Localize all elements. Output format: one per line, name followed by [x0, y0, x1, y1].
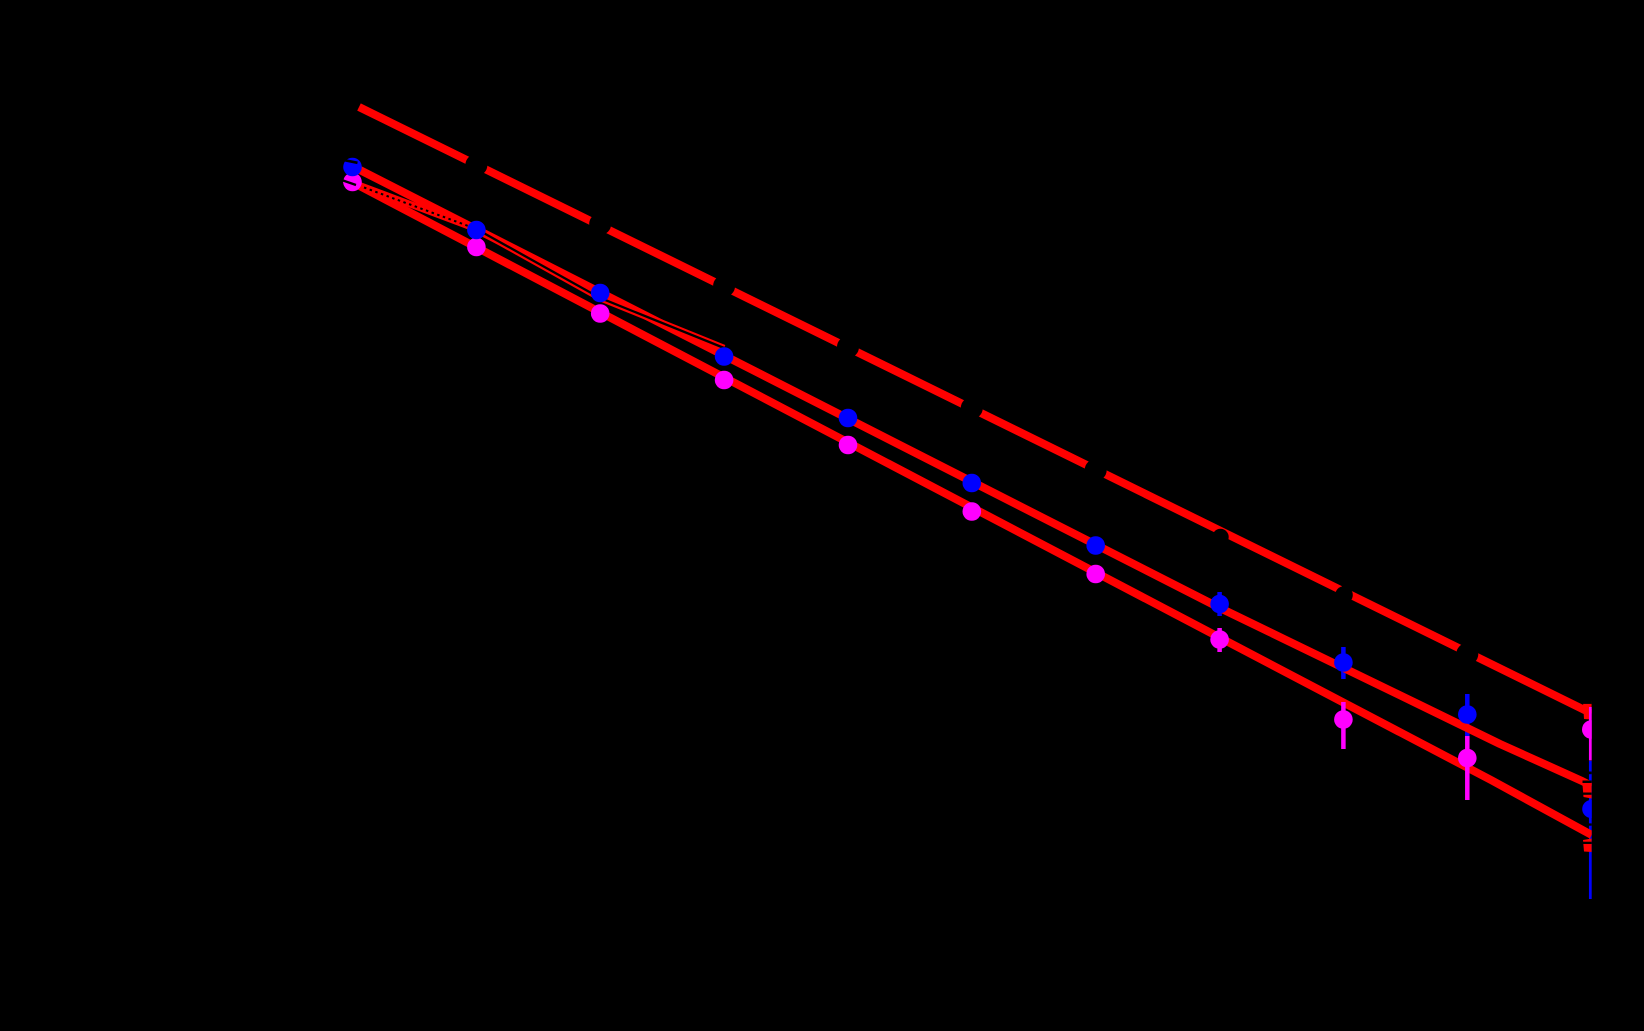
black tick punching blue bar below last blue point [1585, 823, 1592, 825]
black cap punching the blue error bar at right edge [1584, 772, 1594, 775]
thin red envelope around the thin model curve [344, 180, 724, 349]
black data points punching gaps in the dashed top line [465, 154, 1478, 665]
black error bar of black point 10 [1466, 641, 1469, 669]
blue data points [343, 158, 1600, 818]
red dashed fit line (top, black-series fit) with end hook [359, 107, 1592, 714]
magenta error bars [1220, 628, 1592, 800]
black tick over middle red line end (upper) [1583, 781, 1594, 784]
black cap over magenta error bar top / dashed line end [1583, 701, 1593, 704]
middle red line end plunge [1582, 782, 1591, 799]
red dashed line end plunge [1583, 701, 1592, 720]
thin black curve: solid notch across magenta point 1 [343, 181, 356, 186]
black tick over bottom red line end [1583, 842, 1592, 844]
black tick over middle red line end (lower) [1583, 793, 1592, 795]
red solid fit line (middle, blue-series fit) [352, 166, 1592, 786]
bottom red line end plunge [1583, 839, 1592, 853]
magenta data points [343, 173, 1600, 768]
thin black curve: dotted stretch point1 to point2 [364, 188, 476, 230]
thin black curve (model line over red ink) [476, 229, 724, 348]
black error bar of black point 9 [1342, 583, 1345, 601]
blue error bars [1220, 592, 1592, 899]
thin black line stub over blue point 1 (blue-series model line start) [344, 160, 358, 163]
red solid fit line (bottom, magenta-series fit) with end hook [352, 182, 1592, 835]
